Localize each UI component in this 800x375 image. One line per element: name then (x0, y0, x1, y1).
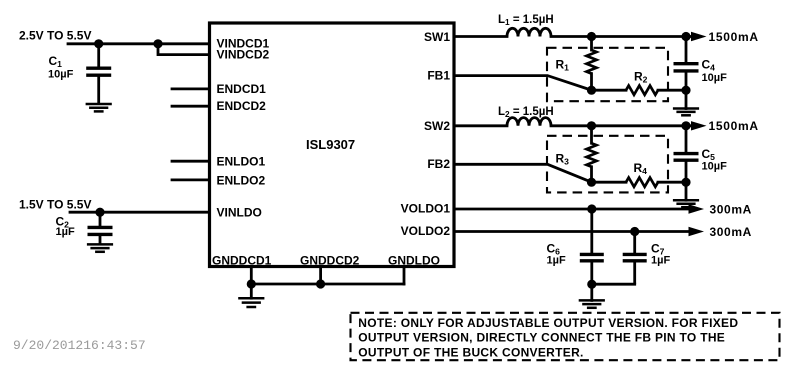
wire divider node to R2 (592, 89, 627, 92)
capacitor C7 (623, 232, 647, 285)
wire LDO ground stub (590, 284, 593, 300)
wire VIN DCD input to VINDCD1 pin (68, 42, 210, 45)
wire GNDDCD2 pin stub (319, 267, 322, 285)
wire ENLDO1 pin stub (172, 160, 210, 163)
arrow VOLDO1 tip (689, 204, 705, 213)
inductor L1 (507, 28, 551, 36)
wire divider node to R4 (592, 181, 627, 184)
svg-text:300mA: 300mA (710, 225, 752, 239)
svg-text:VINLDO: VINLDO (217, 206, 262, 220)
dashed note box (351, 313, 780, 360)
ground under C5 (673, 200, 699, 207)
wire output stub to arrow (686, 35, 690, 38)
svg-text:ENLDO1: ENLDO1 (217, 155, 266, 169)
op-amp/IC U1 ISL9307 body (210, 23, 455, 267)
capacitor C4 (674, 37, 699, 91)
wire R1 bottom lead (590, 74, 593, 91)
ground under C4 (673, 109, 699, 116)
svg-text:1µF: 1µF (547, 254, 566, 266)
ground under IC (238, 298, 264, 307)
svg-text:SW2: SW2 (424, 119, 450, 133)
wire R3 top lead (590, 126, 593, 143)
wire VIN LDO input to VINLDO pin (70, 211, 210, 214)
svg-text:FB2: FB2 (427, 157, 450, 171)
junction C4 bottom node (681, 86, 690, 95)
svg-text:1.5V TO 5.5V: 1.5V TO 5.5V (19, 197, 92, 211)
svg-text:10µF: 10µF (48, 68, 74, 80)
junction SW2 node at R3 (587, 121, 596, 130)
wire output 2 stub to arrow (686, 124, 690, 127)
svg-text:ISL9307: ISL9307 (306, 137, 355, 152)
wire R4 to C5 node (658, 181, 686, 184)
capacitor C5 (674, 126, 699, 182)
svg-text:300mA: 300mA (710, 202, 752, 216)
svg-text:GNDDCD1: GNDDCD1 (212, 253, 272, 267)
svg-text:1500mA: 1500mA (709, 119, 759, 133)
wire C5 node to ground (685, 182, 688, 200)
junction VOLDO2 at C7 (630, 227, 639, 236)
svg-text:OUTPUT VERSION, DIRECTLY CONNE: OUTPUT VERSION, DIRECTLY CONNECT THE FB … (358, 331, 725, 345)
resistor R4 (626, 178, 658, 187)
wire L2 to output node (551, 124, 686, 127)
resistor R1 (587, 50, 597, 74)
svg-text:2.5V TO 5.5V: 2.5V TO 5.5V (19, 28, 92, 42)
wire ground bus (251, 283, 404, 286)
wire VOLDO1 output (454, 208, 690, 211)
svg-text:L1 = 1.5µH: L1 = 1.5µH (498, 14, 554, 27)
wire ENLDO2 pin stub (172, 178, 210, 181)
svg-text:ENDCD2: ENDCD2 (217, 99, 267, 113)
junction SW1 node at R1 (587, 32, 596, 41)
svg-text:R3: R3 (556, 152, 570, 167)
junction FB2 divider node (587, 178, 596, 187)
wire GNDDCD1 pin stub (250, 267, 253, 285)
junction at C2 (95, 208, 104, 217)
svg-text:ENDCD1: ENDCD1 (217, 82, 267, 96)
wire R1 top lead (590, 37, 593, 51)
wire FB2 from pin (454, 164, 592, 182)
wire R3 bottom lead (590, 167, 593, 182)
junction GNDDCD1 ground (247, 279, 256, 288)
wire R2 to C4 node (658, 89, 686, 92)
arrow output 1 tip (691, 32, 707, 41)
junction C5 bottom node (681, 178, 690, 187)
capacitor C1 (86, 44, 111, 104)
dashed box around R3 R4 divider (547, 136, 668, 193)
svg-text:1µF: 1µF (56, 226, 75, 238)
wire L1 to output node (551, 35, 686, 38)
arrow VOLDO2 tip (689, 227, 705, 236)
svg-text:C1: C1 (49, 54, 63, 69)
svg-text:GNDLDO: GNDLDO (388, 253, 440, 267)
ground under C2 (87, 244, 113, 251)
arrow output 2 tip (691, 121, 707, 130)
svg-text:C4: C4 (702, 58, 716, 73)
svg-text:SW1: SW1 (424, 30, 450, 44)
junction at VINDCD2 tap (153, 39, 162, 48)
svg-text:1µF: 1µF (651, 254, 670, 266)
svg-text:ENLDO2: ENLDO2 (217, 173, 266, 187)
capacitor C6 (580, 209, 604, 284)
capacitor C2 (88, 212, 113, 244)
svg-text:VOLDO2: VOLDO2 (401, 224, 451, 238)
svg-text:FB1: FB1 (427, 69, 450, 83)
wire FB1 from pin (454, 76, 592, 91)
resistor R3 (587, 143, 597, 167)
svg-text:1500mA: 1500mA (709, 30, 759, 44)
svg-text:GNDDCD2: GNDDCD2 (300, 253, 360, 267)
svg-text:R2: R2 (634, 69, 648, 84)
svg-text:OUTPUT OF THE BUCK CONVERTER.: OUTPUT OF THE BUCK CONVERTER. (358, 345, 583, 359)
junction LDO caps ground node (587, 280, 596, 289)
resistor R2 (626, 86, 658, 95)
junction SW2 node at C5 (681, 121, 690, 130)
wire VOLDO2 output (454, 230, 690, 233)
junction VOLDO1 at C6 (587, 204, 596, 213)
svg-text:VINDCD2: VINDCD2 (217, 48, 270, 62)
wire C4 node to ground (685, 90, 688, 108)
wire ENDCD2 pin stub (172, 105, 210, 108)
wire GNDLDO pin stub (403, 267, 406, 285)
svg-text:10µF: 10µF (702, 161, 728, 173)
svg-text:R4: R4 (634, 161, 648, 176)
wire VINDCD2 jog (158, 44, 210, 55)
junction GNDDCD2 ground (316, 279, 325, 288)
junction FB1 divider node (587, 86, 596, 95)
svg-text:R1: R1 (556, 57, 570, 72)
inductor L2 (507, 118, 551, 126)
wire C7 bottom to C6 bottom (592, 283, 635, 286)
ground under C1 (86, 104, 112, 111)
wire ENDCD1 pin stub (172, 88, 210, 91)
svg-text:VOLDO1: VOLDO1 (401, 202, 451, 216)
junction SW1 node at C4 (681, 32, 690, 41)
junction at C1 (94, 39, 103, 48)
svg-text:9/20/201216:43:57: 9/20/201216:43:57 (13, 338, 146, 353)
wire SW1 to L1 (454, 35, 507, 38)
dashed box around R1 R2 divider (547, 48, 668, 101)
svg-text:NOTE: ONLY FOR ADJUSTABLE OUTP: NOTE: ONLY FOR ADJUSTABLE OUTPUT VERSION… (358, 316, 738, 330)
wire ground stub under IC (250, 284, 253, 298)
ground under C6 C7 (579, 300, 605, 307)
svg-text:10µF: 10µF (702, 72, 728, 84)
wire SW2 to L2 (454, 124, 507, 127)
